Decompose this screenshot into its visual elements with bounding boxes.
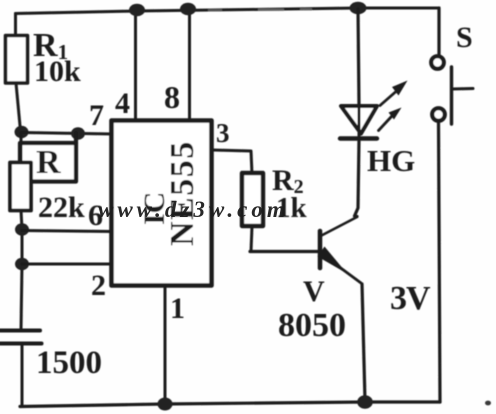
node speck bottom right <box>485 401 491 406</box>
node junction C <box>15 223 29 235</box>
svg-text:7: 7 <box>89 99 104 132</box>
wire LED cathode lead <box>355 140 360 217</box>
transistor emitter arrowhead <box>318 247 348 274</box>
wire top rail <box>16 8 440 14</box>
wire R1 bottom lead <box>16 83 21 131</box>
svg-text:22k: 22k <box>38 191 85 224</box>
op-amp U1 IC NE555 box <box>112 121 212 286</box>
svg-text:NE555: NE555 <box>164 140 201 246</box>
node junction D <box>15 258 29 270</box>
wire bottom rail <box>20 402 440 407</box>
switch S contact 2 <box>432 108 445 121</box>
wire left drop to R1 <box>14 14 17 38</box>
svg-text:2: 2 <box>91 269 106 302</box>
node junction B <box>71 127 85 139</box>
svg-text:R: R <box>36 144 61 181</box>
svg-text:3V: 3V <box>390 280 431 317</box>
wire pin1 lead <box>164 287 167 403</box>
svg-text:1: 1 <box>170 292 185 325</box>
svg-text:V: V <box>303 275 325 308</box>
node top junction pin8 <box>180 3 196 15</box>
wire through LED <box>358 106 361 138</box>
resistor R1 <box>6 36 28 84</box>
wire pin8 lead <box>188 9 191 120</box>
wire top right drop <box>437 8 440 55</box>
wire R2 bottom lead <box>251 227 252 252</box>
wire scan speck 3 <box>300 8 312 10</box>
svg-text:10k: 10k <box>34 55 81 88</box>
svg-text:www.dz3w.com: www.dz3w.com <box>98 197 289 222</box>
wire base line <box>250 250 319 253</box>
svg-text:4: 4 <box>115 87 130 120</box>
switch S actuator bar <box>450 67 453 124</box>
wire pin4 lead <box>134 11 137 120</box>
capacitor 1500 top plate <box>0 329 40 333</box>
wire pin7 line <box>22 133 114 135</box>
wire pin2 line <box>22 263 113 266</box>
wire pin3 line <box>213 150 252 174</box>
svg-text:HG: HG <box>367 143 415 178</box>
LED light arrow 2 <box>379 108 402 131</box>
switch S actuator stem <box>452 87 473 91</box>
LED light arrow 1 <box>380 81 408 106</box>
resistor R frame <box>20 133 76 182</box>
wire below 22k <box>21 211 22 331</box>
wire emitter down lead <box>362 284 365 401</box>
LED HG triangle <box>341 106 377 134</box>
transistor collector line <box>321 217 358 236</box>
LED cathode bar <box>340 136 377 140</box>
capacitor 1500 bottom plate <box>0 342 42 346</box>
node bottom junction pin1 <box>158 398 173 411</box>
transistor emitter line <box>338 266 361 283</box>
node junction left A <box>15 126 29 138</box>
node bottom junction emitter <box>357 395 373 409</box>
wire scan speck 1 <box>208 9 222 11</box>
wire capacitor bottom lead <box>21 345 24 406</box>
svg-text:1500: 1500 <box>36 345 102 381</box>
wire left rail mid <box>20 133 23 164</box>
resistor R2 <box>242 173 263 226</box>
wire pin6 line <box>22 231 113 232</box>
wire LED anode lead <box>358 9 359 105</box>
switch S contact 1 <box>431 56 444 69</box>
transistor Q1 V base bar <box>318 231 323 268</box>
node top junction pin4 <box>129 4 145 16</box>
svg-text:8050: 8050 <box>278 307 346 344</box>
svg-text:8: 8 <box>164 79 180 115</box>
svg-text:S: S <box>456 21 473 54</box>
node top junction LED <box>350 2 367 14</box>
wire right rail <box>439 122 441 402</box>
svg-text:3: 3 <box>216 118 230 148</box>
wire scan speck 2 <box>258 9 284 11</box>
resistor R 22k body <box>10 163 31 211</box>
